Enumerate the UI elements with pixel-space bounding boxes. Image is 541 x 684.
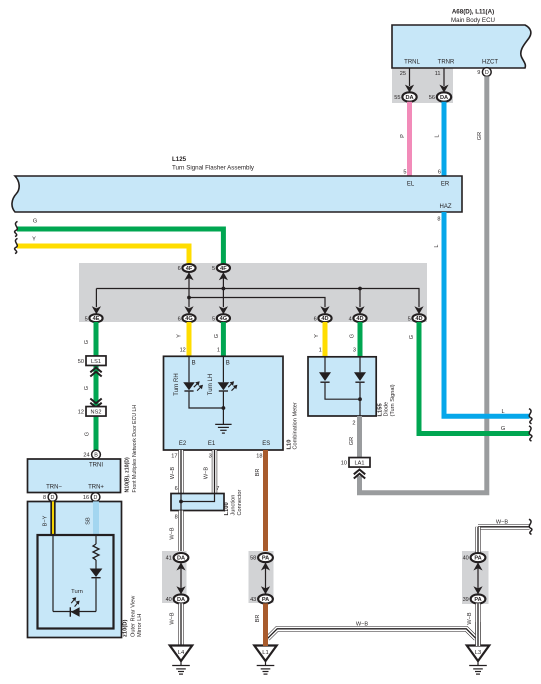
- svg-text:41: 41: [166, 556, 172, 562]
- svg-text:L155: L155: [378, 403, 384, 417]
- svg-text:24: 24: [83, 453, 89, 459]
- svg-text:W−B: W−B: [170, 612, 176, 625]
- svg-text:L3: L3: [475, 650, 481, 656]
- svg-text:TRNI: TRNI: [89, 463, 103, 469]
- svg-text:40: 40: [166, 597, 172, 603]
- svg-text:W−B: W−B: [496, 519, 509, 525]
- svg-text:D: D: [51, 495, 55, 501]
- svg-text:3: 3: [209, 454, 212, 460]
- svg-text:D: D: [485, 70, 489, 76]
- svg-text:NS2: NS2: [91, 409, 102, 415]
- svg-text:Y: Y: [32, 236, 36, 242]
- svg-text:G: G: [85, 432, 91, 436]
- svg-text:DA: DA: [440, 95, 448, 101]
- svg-text:4D: 4D: [356, 316, 363, 322]
- svg-text:16: 16: [83, 495, 89, 501]
- svg-text:5: 5: [85, 316, 88, 322]
- svg-text:7: 7: [216, 486, 219, 492]
- svg-text:G: G: [214, 334, 220, 338]
- svg-text:DA: DA: [405, 95, 413, 101]
- svg-text:TRN+: TRN+: [88, 485, 104, 491]
- svg-text:56: 56: [429, 95, 435, 101]
- svg-text:G: G: [350, 334, 356, 338]
- svg-text:Turn LH: Turn LH: [208, 374, 214, 395]
- svg-text:12: 12: [180, 348, 186, 354]
- svg-text:4F: 4F: [186, 266, 193, 272]
- svg-text:G: G: [84, 340, 90, 344]
- svg-text:43: 43: [250, 597, 256, 603]
- svg-text:ER: ER: [441, 182, 450, 188]
- svg-text:5: 5: [408, 316, 411, 322]
- svg-text:Outer Rear View: Outer Rear View: [131, 595, 137, 637]
- svg-text:4F: 4F: [220, 266, 227, 272]
- svg-text:Y: Y: [314, 334, 320, 338]
- svg-text:ES: ES: [262, 441, 270, 447]
- svg-text:EL: EL: [407, 182, 415, 188]
- svg-text:LA1: LA1: [355, 460, 365, 466]
- svg-text:LS1: LS1: [91, 359, 101, 365]
- svg-text:GR: GR: [349, 437, 355, 445]
- svg-text:Combination Meter: Combination Meter: [293, 402, 299, 449]
- svg-text:E2: E2: [179, 441, 187, 447]
- svg-text:W−B: W−B: [467, 612, 473, 625]
- svg-text:L: L: [434, 244, 440, 247]
- svg-text:12: 12: [78, 409, 84, 415]
- svg-text:4E: 4E: [93, 316, 100, 322]
- svg-text:BR: BR: [255, 615, 261, 623]
- svg-text:W−B: W−B: [170, 527, 176, 540]
- svg-text:6: 6: [314, 316, 317, 322]
- svg-text:HZCT: HZCT: [482, 60, 498, 66]
- svg-text:PA: PA: [474, 556, 481, 562]
- svg-text:3: 3: [353, 348, 356, 354]
- svg-text:58: 58: [250, 556, 256, 562]
- svg-text:PA: PA: [262, 556, 269, 562]
- svg-text:4D: 4D: [415, 316, 422, 322]
- svg-text:2: 2: [352, 421, 355, 427]
- svg-text:G: G: [409, 335, 415, 339]
- svg-text:W−B: W−B: [170, 467, 176, 480]
- svg-text:10: 10: [341, 460, 347, 466]
- svg-text:11: 11: [435, 71, 441, 77]
- svg-text:TRNL: TRNL: [404, 60, 420, 66]
- svg-text:G: G: [501, 426, 505, 432]
- svg-text:50: 50: [78, 359, 84, 365]
- svg-text:SB: SB: [86, 517, 92, 525]
- svg-text:55: 55: [394, 95, 400, 101]
- svg-text:L: L: [501, 409, 504, 415]
- svg-text:DA: DA: [177, 556, 185, 562]
- svg-text:Diode: Diode: [384, 402, 390, 417]
- svg-text:B: B: [192, 361, 196, 367]
- svg-text:Mirror LH: Mirror LH: [137, 614, 143, 637]
- svg-text:G: G: [84, 386, 90, 390]
- svg-text:GR: GR: [477, 132, 483, 140]
- svg-text:6: 6: [175, 486, 178, 492]
- svg-text:B: B: [94, 453, 98, 459]
- svg-text:Main Body ECU: Main Body ECU: [451, 17, 495, 24]
- svg-text:Connector: Connector: [237, 490, 243, 516]
- svg-text:18: 18: [256, 454, 262, 460]
- svg-text:Turn Signal Flasher Assembly: Turn Signal Flasher Assembly: [172, 164, 255, 171]
- svg-text:N10(B), z10(D): N10(B), z10(D): [125, 457, 131, 492]
- svg-text:17: 17: [171, 454, 177, 460]
- svg-text:25: 25: [400, 71, 406, 77]
- svg-text:(Turn Signal): (Turn Signal): [390, 384, 396, 416]
- svg-text:8: 8: [43, 495, 46, 501]
- svg-text:PA: PA: [262, 597, 269, 603]
- svg-text:D: D: [94, 495, 98, 501]
- svg-text:A68(D), L11(A): A68(D), L11(A): [452, 9, 494, 16]
- svg-text:G: G: [33, 218, 37, 224]
- svg-text:6: 6: [178, 316, 181, 322]
- svg-text:6: 6: [438, 170, 441, 176]
- svg-text:4: 4: [349, 316, 352, 322]
- svg-text:8: 8: [175, 515, 178, 521]
- svg-text:8: 8: [437, 217, 440, 223]
- svg-text:L1: L1: [262, 650, 268, 656]
- svg-text:L10: L10: [286, 440, 292, 450]
- svg-text:PA: PA: [474, 597, 481, 603]
- svg-text:Front Multiplex Network Door E: Front Multiplex Network Door ECU LH: [132, 405, 138, 493]
- svg-text:9: 9: [477, 70, 480, 76]
- svg-text:6: 6: [178, 266, 181, 272]
- svg-text:1: 1: [217, 348, 220, 354]
- svg-text:B−Y: B−Y: [43, 515, 49, 526]
- svg-text:BR: BR: [255, 469, 261, 477]
- svg-text:z10(D): z10(D): [123, 620, 129, 637]
- svg-text:L: L: [435, 134, 441, 137]
- svg-text:TRN−: TRN−: [46, 485, 62, 491]
- svg-text:HAZ: HAZ: [440, 204, 452, 210]
- svg-text:Turn: Turn: [71, 589, 83, 595]
- svg-text:4D: 4D: [321, 316, 328, 322]
- svg-text:4G: 4G: [220, 316, 227, 322]
- svg-text:5: 5: [403, 170, 406, 176]
- svg-text:W−B: W−B: [356, 622, 369, 628]
- svg-text:L4: L4: [178, 650, 185, 656]
- svg-text:L100: L100: [224, 502, 230, 515]
- svg-text:39: 39: [463, 597, 469, 603]
- svg-text:W−B: W−B: [204, 467, 210, 480]
- svg-text:Junction: Junction: [231, 495, 237, 516]
- svg-text:5: 5: [212, 266, 215, 272]
- svg-text:40: 40: [463, 556, 469, 562]
- svg-text:4G: 4G: [185, 316, 192, 322]
- svg-text:P: P: [400, 134, 406, 138]
- svg-text:Turn RH: Turn RH: [174, 373, 180, 395]
- svg-text:L125: L125: [172, 156, 187, 163]
- svg-text:Y: Y: [177, 334, 183, 338]
- svg-text:TRNR: TRNR: [438, 60, 455, 66]
- svg-text:B: B: [226, 361, 230, 367]
- svg-text:DA: DA: [177, 597, 185, 603]
- svg-text:E1: E1: [208, 441, 216, 447]
- svg-text:1: 1: [319, 348, 322, 354]
- svg-text:5: 5: [212, 316, 215, 322]
